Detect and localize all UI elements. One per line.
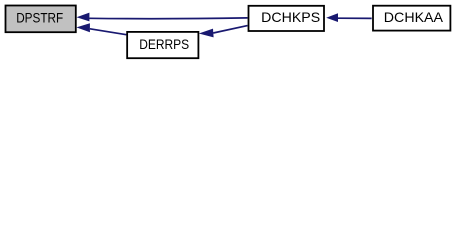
arrowhead into DERRPS (from DCHKPS) [199,29,214,38]
svg-text:DPSTRF: DPSTRF [16,10,63,25]
wire: DCHKPS to DPSTRF [89,17,247,20]
arrowhead into DCHKPS (from DCHKAA) [326,13,338,22]
svg-text:DERRPS: DERRPS [139,37,189,52]
svg-text:DCHKAA: DCHKAA [384,10,444,25]
node DPSTRF (current, grey) [6,6,76,33]
arrowhead into DPSTRF (from DERRPS) [76,23,90,32]
svg-text:DCHKPS: DCHKPS [261,10,320,25]
node DCHKPS [249,6,325,31]
wire: DCHKAA to DCHKPS [338,17,372,19]
arrowhead into DPSTRF (from DCHKPS) [77,13,90,22]
wire: DCHKPS to DERRPS [213,26,247,33]
wire: DERRPS to DPSTRF [90,29,127,35]
node DERRPS [127,32,198,58]
node DCHKAA [373,6,450,31]
